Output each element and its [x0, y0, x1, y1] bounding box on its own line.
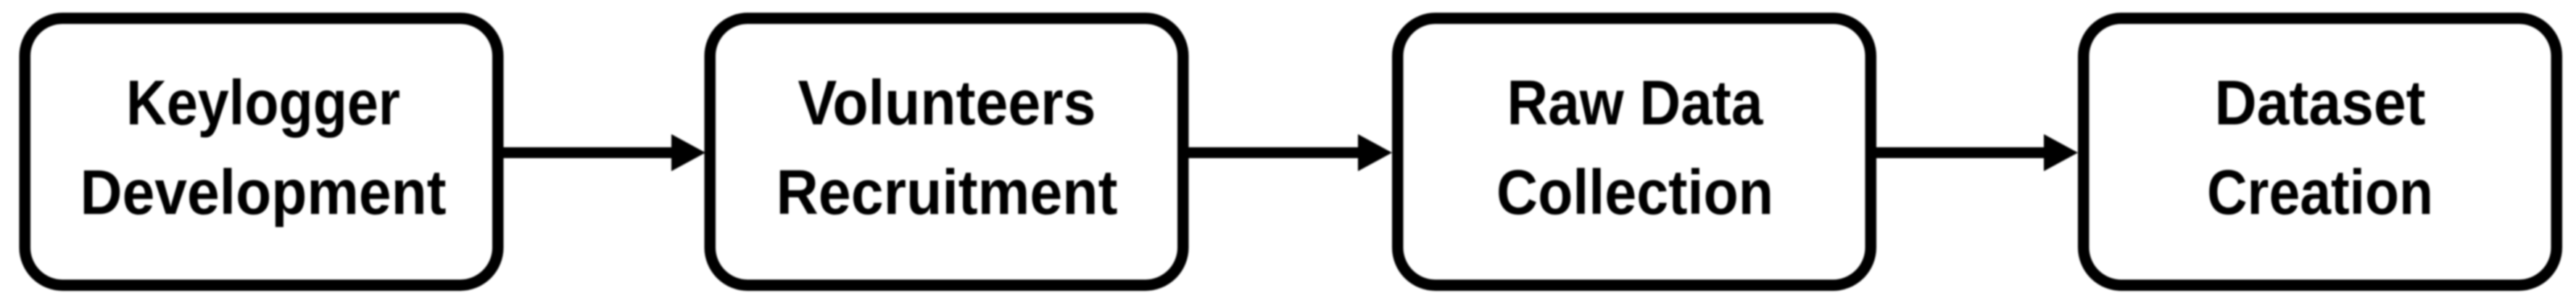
- svg-text:Development: Development: [80, 157, 447, 228]
- svg-text:Keylogger: Keylogger: [126, 68, 400, 139]
- svg-text:Raw Data: Raw Data: [1507, 68, 1764, 139]
- arrow 1: box 1 to box 2: [499, 134, 705, 171]
- process box 2: Volunteers Recruitment: [710, 18, 1183, 285]
- arrow 2: box 2 to box 3: [1184, 134, 1392, 171]
- process box 1: Keylogger Development: [25, 18, 498, 285]
- svg-text:Volunteers: Volunteers: [798, 68, 1096, 139]
- svg-text:Creation: Creation: [2207, 157, 2433, 228]
- svg-text:Recruitment: Recruitment: [776, 157, 1118, 228]
- arrow 3: box 3 to box 4: [1872, 134, 2078, 171]
- process box 4: Dataset Creation: [2084, 18, 2557, 285]
- svg-text:Collection: Collection: [1496, 157, 1773, 228]
- process box 3: Raw Data Collection: [1398, 18, 1871, 285]
- svg-text:Dataset: Dataset: [2215, 68, 2426, 139]
